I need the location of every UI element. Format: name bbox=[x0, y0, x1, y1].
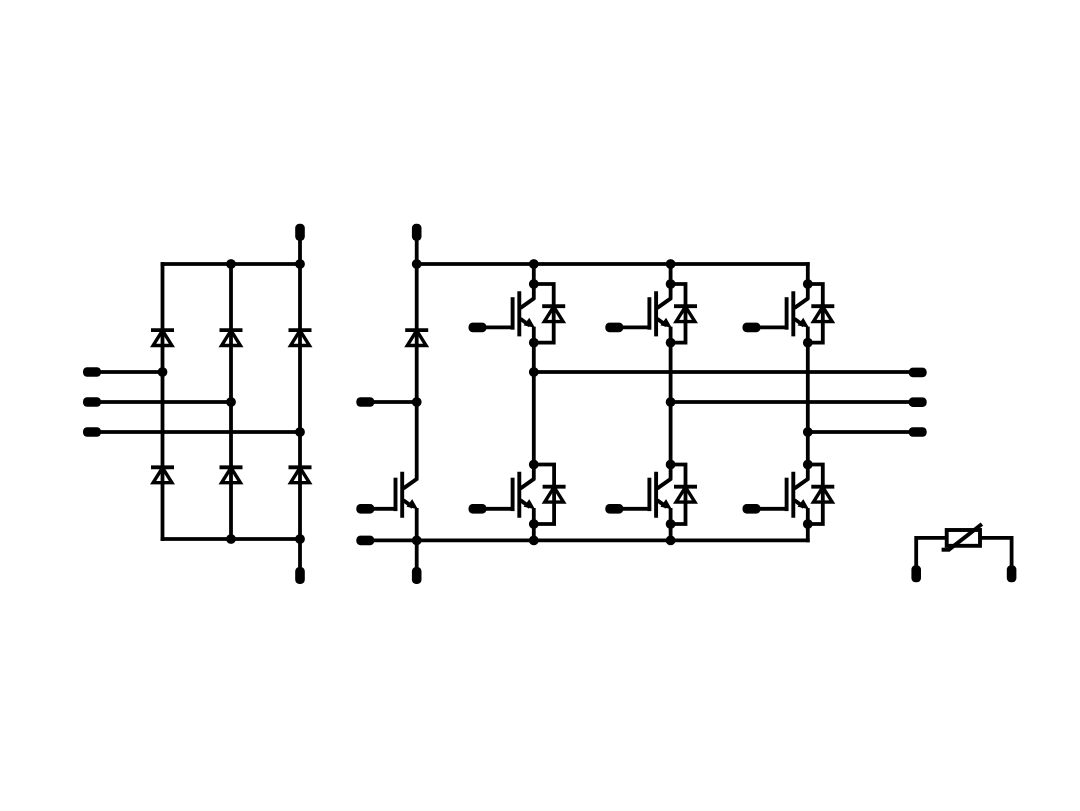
junction phase 3 / leg 3 bbox=[295, 427, 305, 437]
junction chopper leg / brake resistor line bbox=[412, 397, 422, 407]
wire AC input phase 1 bbox=[100, 370, 162, 374]
terminal pad DC- bus (left of bottom rail) bbox=[356, 536, 374, 546]
wire AC input phase 2 bbox=[100, 400, 231, 404]
wire inverter DC- bottom rail bbox=[372, 539, 810, 543]
diode D3 (rectifier upper leg 2) bbox=[220, 330, 243, 345]
diode DF6 freewheel (lower leg 3) bbox=[808, 465, 835, 525]
terminal pad rectifier DC- (bottom) bbox=[295, 567, 305, 584]
junction upper collector node leg 3 bbox=[803, 279, 813, 289]
wire brake resistor terminal to chopper node bbox=[373, 400, 417, 404]
junction rectifier bottom rail / leg 2 bbox=[226, 534, 236, 544]
wire inverter leg 2 bottom segment bbox=[669, 508, 673, 540]
diode DF3 freewheel (upper leg 3) bbox=[808, 284, 835, 343]
junction phase 2 / leg 2 bbox=[226, 397, 236, 407]
diode DF2 freewheel (upper leg 2) bbox=[671, 284, 697, 343]
wire chopper leg lower vertical (IGBT emitter to pad) bbox=[415, 508, 419, 567]
transistor Q5 inverter lower IGBT leg 2 bbox=[605, 472, 672, 518]
wire NTC right lead bbox=[980, 538, 1012, 566]
wire output phase W bbox=[808, 430, 910, 434]
wire rectifier leg 3 vertical bbox=[298, 240, 302, 567]
transistor Q1 inverter upper IGBT leg 1 bbox=[469, 291, 536, 336]
wire rectifier DC+ top rail bbox=[161, 262, 300, 266]
junction lower emitter node leg 3 bbox=[803, 519, 813, 529]
wire AC input phase 3 bbox=[100, 430, 300, 434]
terminal pad AC input L2 bbox=[83, 397, 101, 407]
junction upper collector node leg 1 bbox=[529, 279, 539, 289]
terminal pad rectifier DC+ (top) bbox=[295, 224, 305, 241]
terminal pad brake resistor R bbox=[356, 397, 374, 407]
junction upper emitter node leg 3 bbox=[803, 338, 813, 348]
junction upper collector node leg 2 bbox=[666, 279, 676, 289]
wire inverter leg 1 bottom segment bbox=[532, 508, 536, 540]
wire rectifier leg 2 vertical bbox=[229, 264, 233, 539]
wire inverter leg 3 middle segment bbox=[806, 327, 810, 480]
diode D5 (rectifier upper leg 3) bbox=[289, 330, 312, 345]
terminal pad output U bbox=[909, 368, 927, 378]
diode DF1 freewheel (upper leg 1) bbox=[534, 284, 565, 343]
transistor Q4 inverter lower IGBT leg 1 bbox=[469, 472, 536, 518]
thermistor RT1 (NTC) body bbox=[942, 524, 982, 550]
junction chopper leg / top rail bbox=[412, 259, 422, 269]
wire rectifier DC- bottom rail bbox=[161, 537, 300, 541]
junction rectifier bottom rail / leg 3 bbox=[295, 534, 305, 544]
junction leg 3 / output W bbox=[803, 427, 813, 437]
diode DF4 freewheel (lower leg 1) bbox=[534, 465, 566, 525]
terminal pad inverter DC+ (top) bbox=[412, 224, 422, 241]
wire NTC left lead bbox=[916, 538, 947, 566]
junction lower collector node leg 1 bbox=[529, 460, 539, 470]
junction leg 2 / output V bbox=[666, 397, 676, 407]
wire inverter leg 3 top segment bbox=[806, 262, 810, 299]
wire output phase V bbox=[671, 400, 910, 404]
transistor Q7 brake chopper IGBT bbox=[356, 472, 418, 518]
junction rectifier top rail / leg 3 bbox=[295, 259, 305, 269]
diode D4 (rectifier lower leg 2) bbox=[220, 467, 243, 482]
wire rectifier leg 1 vertical bbox=[161, 262, 165, 541]
junction lower emitter node leg 2 bbox=[666, 519, 676, 529]
junction lower collector node leg 3 bbox=[803, 460, 813, 470]
junction upper emitter node leg 1 bbox=[529, 338, 539, 348]
wire inverter leg 2 top segment bbox=[669, 264, 673, 299]
transistor Q3 inverter upper IGBT leg 3 bbox=[743, 291, 810, 336]
junction rectifier top rail / leg 2 bbox=[226, 259, 236, 269]
terminal pad chopper emitter / DC- (bottom) bbox=[412, 567, 422, 584]
junction upper emitter node leg 2 bbox=[666, 338, 676, 348]
transistor Q6 inverter lower IGBT leg 3 bbox=[743, 472, 810, 518]
terminal pad NTC 1 bbox=[911, 565, 921, 582]
wire inverter leg 2 middle segment bbox=[669, 327, 673, 480]
terminal pad output V bbox=[909, 397, 927, 407]
wire inverter DC+ top rail bbox=[417, 262, 810, 266]
wire inverter leg 1 middle segment bbox=[532, 327, 536, 480]
junction bottom rail / leg 1 bbox=[529, 536, 539, 546]
junction top rail / leg 2 bbox=[666, 259, 676, 269]
junction lower collector node leg 2 bbox=[666, 460, 676, 470]
diode D1 (rectifier upper leg 1) bbox=[151, 330, 174, 345]
junction bottom rail / leg 2 bbox=[666, 536, 676, 546]
terminal pad output W bbox=[909, 427, 927, 437]
wire output phase U bbox=[534, 370, 910, 374]
terminal pad AC input L1 bbox=[83, 367, 101, 377]
wire chopper leg upper vertical (DC+ to IGBT collector) bbox=[415, 240, 419, 480]
diode D7 (brake chopper freewheel) bbox=[405, 330, 428, 345]
junction top rail / leg 1 bbox=[529, 259, 539, 269]
terminal pad NTC 2 bbox=[1007, 565, 1017, 582]
junction lower emitter node leg 1 bbox=[529, 519, 539, 529]
terminal pad AC input L3 bbox=[83, 427, 101, 437]
junction chopper leg / bottom rail bbox=[412, 536, 422, 546]
junction leg 1 / output U bbox=[529, 367, 539, 377]
diode DF5 freewheel (lower leg 2) bbox=[671, 465, 697, 525]
junction phase 1 / leg 1 bbox=[158, 367, 168, 377]
wire inverter leg 1 top segment bbox=[532, 264, 536, 299]
diode D2 (rectifier lower leg 1) bbox=[151, 467, 174, 482]
wire inverter leg 3 bottom segment bbox=[806, 508, 810, 542]
diode D6 (rectifier lower leg 3) bbox=[289, 467, 312, 482]
transistor Q2 inverter upper IGBT leg 2 bbox=[605, 291, 672, 336]
